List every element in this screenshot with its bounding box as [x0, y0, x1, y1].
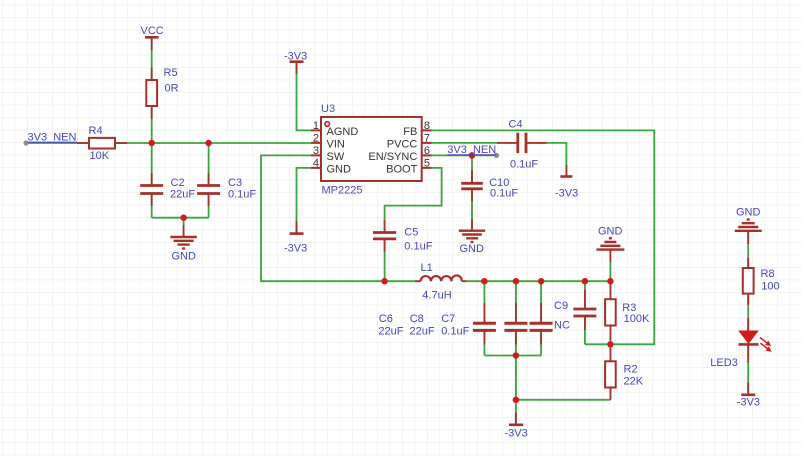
junction node R4 R5 VIN [148, 140, 155, 147]
-3V3 LED power stem [747, 383, 749, 395]
junction node C2 C3 GND [180, 214, 187, 221]
VCC power stem [151, 38, 153, 50]
wire C5 bottom to rail [384, 239, 386, 281]
junction node R3 rail [607, 278, 614, 285]
LED3 light arrows [760, 338, 771, 352]
wire C7 branch [540, 281, 542, 355]
resistor R4 leads [77, 142, 127, 144]
capacitor C9 leads [584, 290, 586, 330]
resistor R2 leads [609, 344, 611, 400]
resistor R8 leads [747, 258, 749, 305]
resistor R2 body [605, 361, 616, 387]
wire bottom node to R2 bottom [516, 399, 611, 401]
svg-text:22uF: 22uF [378, 326, 403, 338]
LED GND stem red part [747, 232, 749, 245]
svg-text:U3: U3 [321, 103, 335, 115]
svg-text:2: 2 [313, 132, 319, 144]
svg-text:C8: C8 [410, 313, 424, 325]
capacitor C7 plates [530, 323, 553, 330]
capacitor C4 leads [497, 142, 547, 144]
junction node bottom -3V3 [513, 397, 520, 404]
U3 left pin stubs [311, 130, 321, 168]
wire net 3V3_NEN input rail to VIN pin2 [26, 142, 311, 144]
wire C9 branch [584, 281, 586, 344]
junction node EN C10 [469, 152, 476, 159]
-3V3 C4 power bar [560, 175, 572, 178]
wire output caps bottom rail [484, 355, 541, 357]
svg-text:-3V3: -3V3 [555, 188, 578, 200]
svg-text:FB: FB [403, 126, 417, 138]
resistor R3 body [605, 299, 616, 325]
junction node C9 rail [582, 278, 589, 285]
svg-text:NC: NC [554, 320, 570, 332]
svg-text:LED3: LED3 [710, 357, 738, 369]
capacitor C8 leads [515, 303, 517, 345]
GND stem green part above R3 [609, 262, 611, 281]
svg-text:22uF: 22uF [170, 188, 195, 200]
capacitor C4 plates [518, 133, 526, 153]
svg-text:6: 6 [424, 145, 430, 157]
wire C8 branch [515, 281, 517, 355]
svg-text:10K: 10K [90, 150, 110, 162]
-3V3 top power bar [290, 60, 304, 63]
svg-text:0.1uF: 0.1uF [228, 188, 256, 200]
svg-text:GND: GND [736, 206, 761, 218]
wire SW pin3 loop to output rail [261, 155, 415, 281]
wire VCC stem to R5 [151, 38, 153, 80]
wire feedback loop from divider to FB pin8 [432, 130, 655, 344]
svg-text:GND: GND [172, 250, 197, 262]
capacitor C6 plates [473, 323, 496, 330]
LED3 triangle [739, 331, 758, 343]
wire C2 branch [151, 143, 153, 218]
GND stem red part below C10 [471, 219, 473, 230]
svg-text:0.1uF: 0.1uF [441, 326, 469, 338]
svg-text:R2: R2 [624, 363, 638, 375]
inductor L1 arcs [421, 275, 462, 281]
wire LED GND to R8 [747, 232, 749, 269]
junction node caps bottom [513, 352, 520, 359]
svg-text:-3V3: -3V3 [505, 427, 528, 439]
capacitor C7 leads [540, 303, 542, 345]
svg-text:1: 1 [313, 120, 319, 132]
wire LED3 to -3V3 [747, 345, 749, 394]
wire R3 top [609, 281, 611, 299]
capacitor C3 plates [197, 186, 220, 194]
wire BOOT pin5 to C5 [385, 168, 442, 232]
svg-text:GND: GND [460, 243, 485, 255]
wire R5 bottom to rail junction [151, 106, 153, 143]
U3 right pin stubs [422, 130, 432, 168]
svg-text:BOOT: BOOT [386, 163, 417, 175]
GND stem above R3 [609, 250, 611, 262]
svg-text:7: 7 [424, 132, 430, 144]
capacitor C6 leads [483, 303, 485, 345]
svg-text:5: 5 [424, 157, 430, 169]
svg-text:VIN: VIN [327, 138, 345, 150]
wire C2 C3 bottom rail [152, 217, 209, 219]
net label 3V3_NEN right underline [447, 154, 496, 156]
-3V3 pin4 power bar [290, 232, 304, 235]
wire R2 top [609, 344, 611, 361]
svg-text:8: 8 [424, 120, 430, 132]
junction node C5 rail [381, 278, 388, 285]
svg-text:4.7uH: 4.7uH [422, 290, 451, 302]
ground symbol above LED flipped [735, 220, 762, 231]
svg-text:L1: L1 [421, 262, 433, 274]
wire bottom node to -3V3 symbol [515, 400, 517, 424]
capacitor C2 plates [140, 186, 163, 194]
wire GND stem below C2 C3 [183, 218, 185, 236]
wire output rail after L1 [467, 280, 611, 282]
svg-text:AGND: AGND [327, 126, 359, 138]
svg-text:C3: C3 [228, 177, 242, 189]
capacitor C5 leads [384, 220, 386, 252]
-3V3 LED power bar [741, 393, 755, 396]
unconnected pin dot 3V3_NEN right [494, 153, 499, 158]
resistor R4 body [89, 138, 115, 149]
capacitor C5 plates [373, 233, 396, 239]
resistor R5 leads [151, 68, 153, 120]
svg-text:100: 100 [761, 281, 779, 293]
IC U3 pin1 indicator [325, 122, 330, 127]
VCC power bar [145, 36, 159, 39]
svg-text:MP2225: MP2225 [322, 185, 363, 197]
svg-text:C7: C7 [441, 313, 455, 325]
svg-text:PVCC: PVCC [387, 138, 418, 150]
svg-text:EN/SYNC: EN/SYNC [368, 151, 417, 163]
capacitor C10 leads [471, 170, 473, 201]
resistor R5 body [146, 80, 157, 106]
wire R2 bottom [609, 388, 611, 400]
unconnected pin dot left [23, 140, 28, 145]
capacitor C8 plates [504, 323, 527, 330]
svg-text:0R: 0R [165, 83, 179, 95]
IC U3 box [321, 117, 422, 181]
svg-text:0.1uF: 0.1uF [490, 188, 518, 200]
svg-text:C4: C4 [509, 119, 523, 131]
svg-text:-3V3: -3V3 [737, 396, 760, 408]
svg-text:R3: R3 [622, 302, 636, 314]
wire C4 right to -3V3 symbol [527, 143, 567, 176]
svg-text:100K: 100K [624, 313, 650, 325]
-3V3 pin4 power stem [296, 221, 298, 233]
svg-text:C9: C9 [554, 300, 568, 312]
ground symbol below C2 C3 [170, 237, 196, 248]
junction node C3 VIN [205, 140, 212, 147]
LED3 leads [747, 318, 749, 363]
svg-text:3: 3 [313, 145, 319, 157]
wire -3V3 top to AGND pin1 [297, 62, 312, 130]
svg-text:SW: SW [327, 151, 345, 163]
-3V3 bottom power stem [515, 413, 517, 425]
svg-text:R8: R8 [761, 268, 775, 280]
junction node R3 R2 FB [607, 341, 614, 348]
wire C10 branch [471, 155, 473, 229]
wire caps bottom to -3V3 node [515, 356, 517, 400]
wire R3 bottom to divider node [609, 326, 611, 345]
LED3 cathode bar [739, 343, 759, 346]
junction node C7 rail [538, 278, 545, 285]
ground symbol above R3 flipped [596, 238, 624, 249]
svg-text:GND: GND [598, 225, 623, 237]
svg-text:0.1uF: 0.1uF [510, 159, 538, 171]
wire C3 branch [208, 143, 210, 218]
junction node C8 rail [513, 278, 520, 285]
svg-text:R5: R5 [164, 67, 178, 79]
capacitor C3 leads [208, 173, 210, 206]
wire C6 branch [483, 281, 485, 355]
-3V3 top power stem [296, 62, 298, 74]
svg-text:-3V3: -3V3 [284, 51, 307, 63]
-3V3 C4 power stem [565, 165, 567, 176]
capacitor C10 plates [461, 183, 483, 189]
svg-text:22K: 22K [624, 375, 644, 387]
svg-text:22uF: 22uF [410, 326, 435, 338]
wire GND pin4 to -3V3 symbol [297, 168, 312, 233]
capacitor C9 plates [573, 309, 596, 316]
svg-text:4: 4 [313, 157, 319, 169]
svg-text:0.1uF: 0.1uF [404, 241, 432, 253]
wire PVCC pin7 to C4 [432, 142, 517, 144]
wire EN/SYNC pin6 to 3V3_NEN label [432, 154, 497, 156]
-3V3 bottom power bar [509, 423, 523, 426]
capacitor C2 leads [151, 173, 153, 206]
GND stem red part below C2 C3 [183, 225, 185, 237]
inductor L1 leads [415, 280, 467, 282]
svg-text:VCC: VCC [141, 25, 164, 37]
svg-text:GND: GND [327, 163, 352, 175]
resistor R3 leads [609, 281, 611, 340]
junction node C6 rail [481, 278, 488, 285]
svg-text:C5: C5 [404, 227, 418, 239]
wire R8 to LED3 [747, 294, 749, 332]
ground symbol below C10 [459, 231, 485, 242]
svg-text:R4: R4 [89, 125, 103, 137]
svg-text:C6: C6 [379, 313, 393, 325]
svg-text:-3V3: -3V3 [284, 243, 307, 255]
resistor R8 body [743, 268, 754, 294]
net label 3V3_NEN left underline [28, 141, 78, 143]
svg-text:C2: C2 [171, 177, 185, 189]
